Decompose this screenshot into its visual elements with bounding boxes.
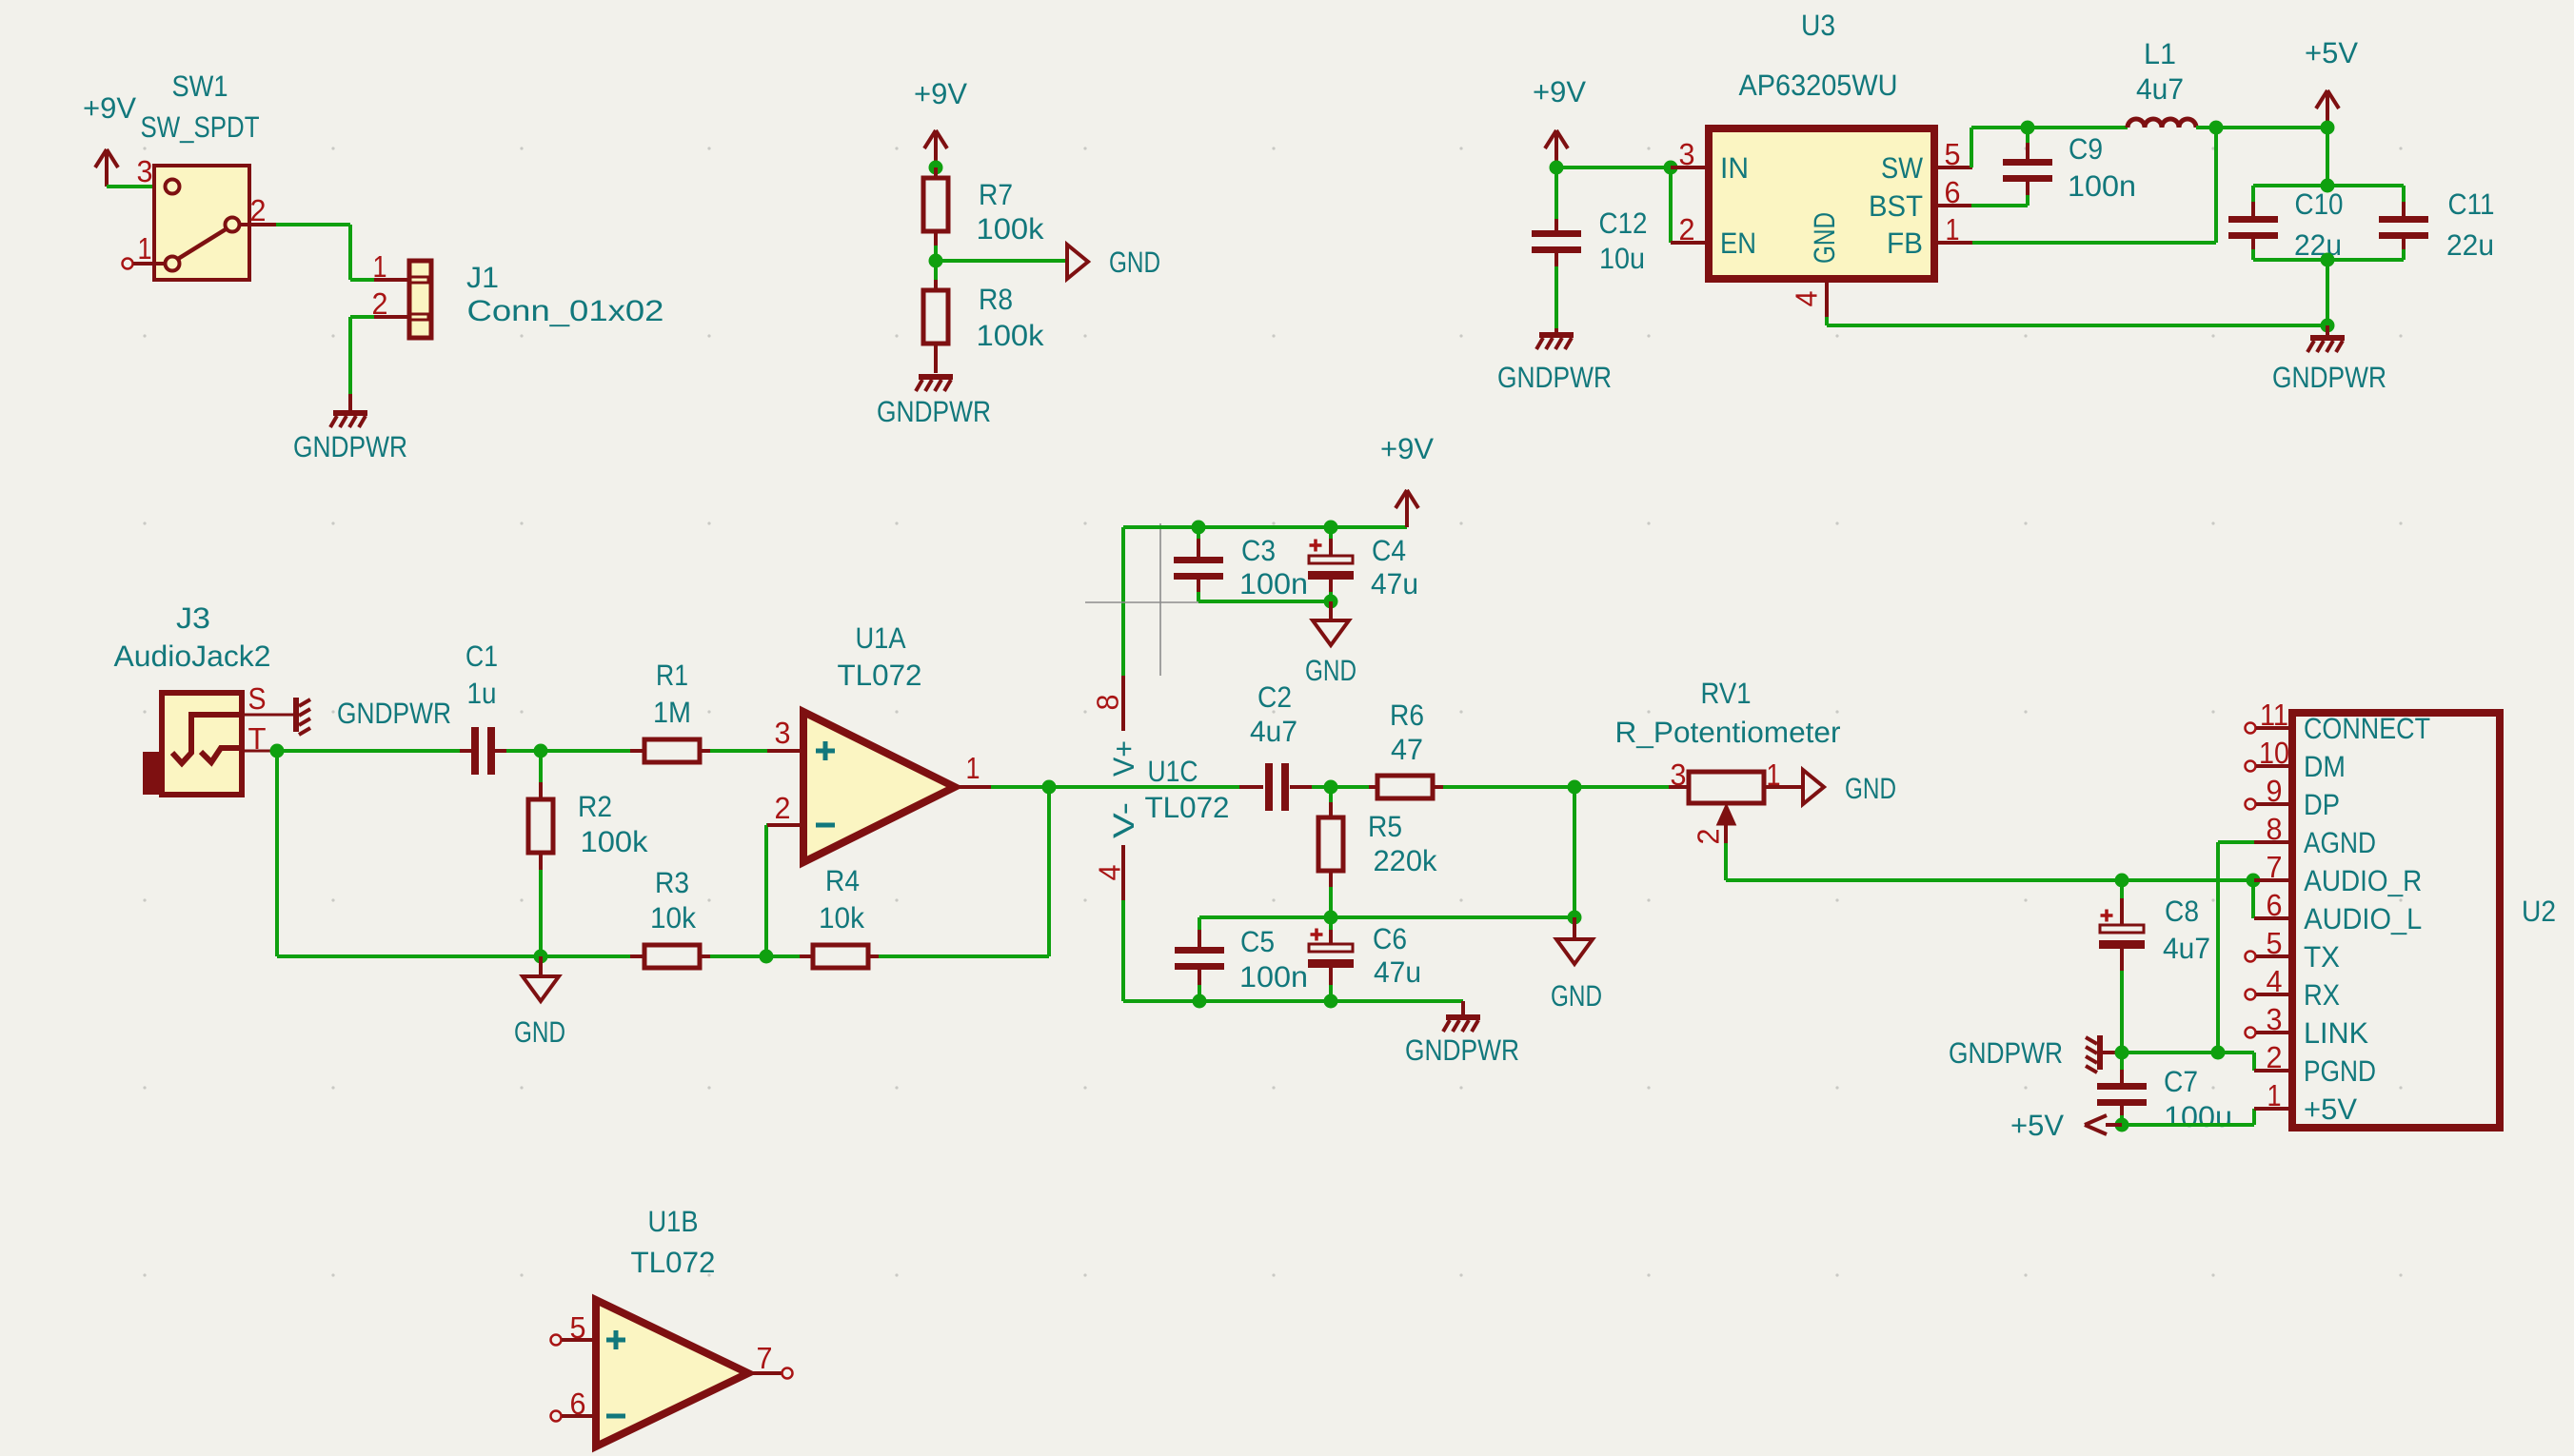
- svg-text:1: 1: [373, 249, 387, 284]
- ground GNDPWR (U2): [2103, 1051, 2122, 1054]
- ground GND (input bias): [539, 956, 543, 976]
- U2 pin 6 AUDIO_L: [2254, 916, 2292, 920]
- capacitor C6 47u (polarized): [1329, 917, 1333, 930]
- resistor R1 1M: [541, 749, 630, 753]
- wire U3 GND to GNDPWR rail: [1825, 317, 1829, 325]
- svg-text:PGND: PGND: [2304, 1054, 2376, 1088]
- svg-text:2: 2: [1692, 829, 1726, 845]
- svg-text:GND: GND: [514, 1015, 565, 1049]
- node +5V junction: [2115, 1118, 2129, 1132]
- svg-text:6: 6: [570, 1387, 586, 1421]
- wire J1 pin2 to GNDPWR: [350, 315, 374, 319]
- wire J3 down the left side: [275, 751, 279, 956]
- capacitor C3 100n: [1197, 527, 1200, 539]
- svg-text:GND: GND: [1845, 772, 1896, 805]
- svg-text:4: 4: [1093, 865, 1127, 881]
- svg-text:5: 5: [1945, 137, 1961, 171]
- cursor crosshair artifact: [1159, 523, 1161, 676]
- svg-text:47u: 47u: [1371, 567, 1418, 600]
- svg-text:100u: 100u: [2164, 1100, 2232, 1133]
- wire C3/C4 bottom: [1198, 600, 1331, 603]
- U2 pin 10 DM: [2246, 761, 2256, 772]
- wire feedback up to output: [1047, 787, 1051, 956]
- node C6 bottom junction: [1324, 994, 1338, 1009]
- svg-text:1u: 1u: [467, 677, 497, 710]
- wire +9V to SW1 pin3: [107, 185, 164, 188]
- wire AGND vertical: [2216, 842, 2220, 1053]
- svg-text:6: 6: [2267, 888, 2283, 922]
- svg-text:C6: C6: [1373, 922, 1407, 955]
- svg-text:C9: C9: [2069, 132, 2103, 166]
- wire tip to C1: [277, 749, 460, 753]
- svg-text:5: 5: [2267, 926, 2283, 960]
- svg-text:GNDPWR: GNDPWR: [1497, 361, 1612, 394]
- node C1/R2 junction: [534, 744, 548, 758]
- svg-text:22u: 22u: [2446, 228, 2494, 262]
- svg-text:8: 8: [1091, 695, 1125, 711]
- node C3 junction: [1192, 521, 1206, 535]
- svg-text:6: 6: [1945, 175, 1961, 209]
- svg-text:4u7: 4u7: [1250, 715, 1297, 748]
- wire down to GND: [1573, 787, 1576, 917]
- svg-text:AudioJack2: AudioJack2: [114, 639, 271, 673]
- wire SW1 pin2 to J1 pin1: [276, 223, 350, 226]
- wire +9V to U3 IN: [1556, 166, 1671, 169]
- U1B pin 5 (+): [551, 1335, 562, 1346]
- svg-text:DM: DM: [2304, 750, 2346, 783]
- svg-text:R5: R5: [1368, 810, 1402, 843]
- ground GND (audio): [1573, 917, 1576, 939]
- node IN/EN junction: [1664, 161, 1678, 175]
- wire GNDPWR bottom rail: [1123, 999, 1463, 1003]
- svg-text:GND: GND: [1808, 212, 1841, 264]
- U1A pin 3 (+): [767, 749, 803, 753]
- svg-text:2: 2: [775, 791, 791, 825]
- svg-text:7: 7: [2267, 850, 2283, 884]
- svg-text:R7: R7: [979, 178, 1013, 211]
- svg-text:R1: R1: [656, 659, 688, 692]
- svg-text:C11: C11: [2448, 187, 2495, 221]
- U1B pin 7 out: [748, 1371, 782, 1375]
- svg-text:100k: 100k: [581, 825, 649, 858]
- svg-text:RX: RX: [2304, 978, 2340, 1012]
- svg-text:RV1: RV1: [1701, 677, 1752, 710]
- svg-text:1: 1: [1767, 758, 1781, 792]
- RV1 pin 2 wiper: [1718, 806, 1734, 824]
- svg-text:4: 4: [1790, 291, 1824, 307]
- svg-text:C5: C5: [1240, 925, 1275, 958]
- svg-text:220k: 220k: [1374, 844, 1437, 877]
- svg-text:100n: 100n: [1239, 960, 1308, 994]
- svg-text:1: 1: [966, 751, 980, 785]
- svg-text:3: 3: [775, 716, 791, 750]
- U2 pin 3 LINK: [2246, 1028, 2256, 1038]
- resistor R5 220k: [1329, 787, 1333, 802]
- svg-text:2: 2: [372, 286, 388, 321]
- svg-text:10u: 10u: [1599, 242, 1645, 275]
- resistor R2 100k: [539, 751, 543, 782]
- svg-text:R8: R8: [979, 283, 1013, 316]
- node C4 bottom junction: [1324, 595, 1338, 609]
- U2 pin 1 +5V: [2254, 1107, 2292, 1111]
- svg-text:GNDPWR: GNDPWR: [2272, 361, 2386, 394]
- svg-text:2: 2: [250, 193, 267, 227]
- node GND junction: [1568, 911, 1582, 925]
- node C10/C11 top rail junction: [2321, 179, 2335, 193]
- svg-text:2: 2: [2267, 1040, 2283, 1074]
- wire AUDIO_L link: [2251, 880, 2255, 918]
- svg-text:5: 5: [570, 1310, 586, 1345]
- U1A pin 1 out: [955, 785, 991, 789]
- power flag GND (divider): [1067, 245, 1088, 279]
- wire down to GNDPWR rail: [2326, 260, 2329, 325]
- svg-text:11: 11: [2260, 698, 2288, 732]
- node bottom rail junction: [2321, 253, 2335, 267]
- svg-text:R_Potentiometer: R_Potentiometer: [1615, 716, 1841, 749]
- svg-text:+5V: +5V: [2010, 1109, 2064, 1142]
- svg-text:3: 3: [1671, 758, 1687, 792]
- svg-text:V+: V+: [1107, 740, 1140, 777]
- svg-text:U3: U3: [1801, 9, 1835, 42]
- node GNDPWR junction: [2115, 1046, 2129, 1060]
- node R6/pot junction: [1568, 780, 1582, 795]
- U2 pin 11 CONNECT: [2246, 723, 2256, 734]
- resistor R3 10k: [630, 954, 644, 958]
- svg-text:AUDIO_L: AUDIO_L: [2304, 902, 2422, 935]
- wire +5V rail: [2122, 1123, 2254, 1127]
- svg-text:U1C: U1C: [1148, 755, 1198, 788]
- node J3 tip junction: [270, 744, 285, 758]
- svg-text:+9V: +9V: [1533, 75, 1586, 108]
- svg-text:1: 1: [1946, 212, 1960, 246]
- ground GNDPWR (C10/C11): [2326, 325, 2329, 335]
- svg-text:GNDPWR: GNDPWR: [877, 395, 991, 428]
- svg-text:4u7: 4u7: [2136, 72, 2184, 106]
- svg-text:C1: C1: [465, 639, 498, 673]
- node R3/R4 junction: [760, 950, 774, 964]
- svg-text:3: 3: [1679, 137, 1695, 171]
- wire +5V down to C10/C11 rail: [2326, 128, 2329, 186]
- svg-text:C12: C12: [1599, 207, 1648, 240]
- svg-text:C7: C7: [2164, 1065, 2198, 1098]
- node C9 top junction: [2021, 121, 2035, 135]
- power flag +5V (U2): [2106, 1123, 2122, 1127]
- svg-text:100k: 100k: [977, 212, 1045, 246]
- svg-text:SW1: SW1: [172, 69, 228, 103]
- svg-text:R6: R6: [1390, 698, 1424, 732]
- svg-text:U1B: U1B: [648, 1205, 699, 1238]
- svg-text:TL072: TL072: [1145, 791, 1230, 824]
- wire +9V top rail: [1123, 525, 1407, 529]
- wire wiper to U2 audio: [1724, 843, 1728, 880]
- svg-text:EN: EN: [1720, 226, 1756, 260]
- svg-text:+9V: +9V: [914, 77, 967, 110]
- svg-text:C10: C10: [2295, 187, 2344, 221]
- U2 pin 4 RX: [2246, 990, 2256, 1000]
- svg-text:AP63205WU: AP63205WU: [1739, 69, 1898, 102]
- svg-text:+9V: +9V: [83, 91, 136, 125]
- wire C10/C11 bottom rail: [2253, 258, 2404, 262]
- node C5 bottom junction: [1193, 994, 1207, 1009]
- svg-text:AGND: AGND: [2304, 826, 2376, 859]
- node output junction: [1042, 780, 1057, 795]
- svg-text:1: 1: [138, 231, 152, 266]
- svg-text:FB: FB: [1887, 226, 1923, 260]
- ground GND (C3/C4): [1329, 601, 1333, 620]
- svg-text:J3: J3: [176, 601, 210, 635]
- svg-text:DP: DP: [2304, 788, 2340, 821]
- svg-text:47: 47: [1391, 733, 1423, 766]
- resistor R6 47: [1331, 785, 1369, 789]
- node +9V/C12 junction: [1550, 161, 1564, 175]
- svg-text:R3: R3: [655, 866, 689, 899]
- U2 pin 8 AGND: [2254, 840, 2292, 844]
- J1 pin 2: [374, 315, 409, 319]
- capacitor C5 100n: [1198, 917, 1201, 930]
- svg-text:GNDPWR: GNDPWR: [1405, 1033, 1519, 1067]
- svg-text:C2: C2: [1257, 680, 1292, 714]
- node +5V junction: [2321, 121, 2335, 135]
- wire GNDPWR rail to PGND: [2122, 1051, 2254, 1054]
- U3 pin 5 SW: [1934, 166, 1972, 169]
- svg-text:CONNECT: CONNECT: [2304, 712, 2430, 745]
- svg-text:S: S: [248, 681, 267, 716]
- U3 pin 2 EN: [1671, 241, 1709, 245]
- svg-text:+9V: +9V: [1380, 432, 1434, 465]
- wire junction to EN: [1669, 167, 1673, 243]
- svg-text:GNDPWR: GNDPWR: [337, 697, 451, 730]
- svg-text:Conn_01x02: Conn_01x02: [467, 294, 664, 327]
- wire C5/C6 top rail: [1199, 915, 1574, 919]
- svg-text:GND: GND: [1551, 979, 1602, 1013]
- svg-text:1M: 1M: [653, 696, 691, 729]
- svg-text:+5V: +5V: [2304, 1092, 2357, 1126]
- svg-text:2: 2: [1679, 212, 1695, 246]
- svg-text:R2: R2: [578, 790, 612, 823]
- node C4 junction: [1324, 521, 1338, 535]
- node L1/FB junction: [2209, 121, 2224, 135]
- RV1 pin 1: [1764, 785, 1801, 789]
- node divider mid junction: [929, 254, 943, 268]
- svg-text:GNDPWR: GNDPWR: [293, 430, 407, 463]
- svg-text:9: 9: [2267, 774, 2283, 808]
- wire divider mid to GND flag: [936, 259, 1066, 263]
- svg-text:SW_SPDT: SW_SPDT: [141, 110, 260, 144]
- svg-text:U2: U2: [2522, 895, 2556, 928]
- resistor R4 10k: [766, 954, 800, 958]
- wire inverting input: [764, 825, 768, 956]
- capacitor C4 47u (polarized): [1329, 527, 1333, 539]
- svg-text:SW: SW: [1881, 151, 1924, 185]
- svg-text:TL072: TL072: [631, 1246, 716, 1279]
- U3 pin 3 IN: [1671, 166, 1709, 169]
- capacitor C2 4u7: [1239, 785, 1263, 789]
- svg-text:C3: C3: [1241, 534, 1276, 567]
- svg-text:GND: GND: [1109, 246, 1160, 279]
- svg-text:BST: BST: [1869, 189, 1923, 223]
- svg-text:3: 3: [137, 154, 153, 188]
- svg-text:LINK: LINK: [2304, 1016, 2368, 1050]
- svg-text:4: 4: [2267, 964, 2283, 998]
- wire R6 out to RV1: [1574, 785, 1669, 789]
- svg-text:C4: C4: [1372, 534, 1406, 567]
- svg-text:V-: V-: [1107, 802, 1140, 838]
- svg-text:10k: 10k: [650, 901, 696, 935]
- capacitor C7 100u: [2120, 1053, 2124, 1070]
- svg-text:4u7: 4u7: [2163, 932, 2210, 965]
- svg-text:3: 3: [2267, 1002, 2283, 1036]
- U3 pin 1 FB: [1934, 241, 1972, 245]
- capacitor C12 10u: [1554, 167, 1558, 219]
- capacitor C11 22u: [2402, 186, 2406, 202]
- node AGND junction: [2211, 1046, 2226, 1060]
- U1C pin 8 V+: [1121, 527, 1125, 676]
- capacitor C1 1u: [460, 749, 471, 753]
- svg-text:+5V: +5V: [2305, 36, 2358, 69]
- U1B pin 6 (-): [551, 1411, 562, 1422]
- node R2/GND junction: [534, 950, 548, 964]
- capacitor C9 100n: [2026, 128, 2029, 143]
- svg-text:AUDIO_R: AUDIO_R: [2304, 864, 2422, 897]
- U2 pin 5 TX: [2246, 952, 2256, 962]
- svg-text:GNDPWR: GNDPWR: [1949, 1036, 2063, 1070]
- svg-text:C8: C8: [2165, 895, 2199, 928]
- U2 pin 9 DP: [2246, 799, 2256, 810]
- node R5/C6 junction: [1324, 911, 1338, 925]
- U2 pin 7 AUDIO_R: [2254, 878, 2292, 882]
- wire SW to C9 top: [1970, 128, 1973, 167]
- J1 pin 1: [374, 278, 409, 282]
- capacitor C8 4u7 (polarized): [2120, 880, 2124, 898]
- svg-text:R4: R4: [825, 864, 860, 897]
- svg-text:TL072: TL072: [838, 659, 922, 692]
- ground GNDPWR (J3 sleeve): [293, 698, 299, 732]
- capacitor C10 22u: [2251, 186, 2255, 202]
- svg-text:7: 7: [757, 1341, 773, 1375]
- U2 pin 2 PGND: [2254, 1069, 2292, 1072]
- ground GNDPWR (J1): [348, 394, 352, 410]
- ground GNDPWR (C12): [1554, 328, 1558, 332]
- node GNDPWR rail junction: [2321, 319, 2335, 333]
- ground GNDPWR (C5/C6): [1461, 1001, 1465, 1014]
- wire FB feedback: [1972, 241, 2216, 245]
- svg-text:8: 8: [2267, 812, 2283, 846]
- node C2/R5/R6 junction: [1324, 780, 1338, 795]
- svg-text:100k: 100k: [977, 319, 1045, 352]
- svg-text:100n: 100n: [1239, 567, 1308, 600]
- ground GNDPWR (R8): [919, 374, 953, 380]
- U3 pin 4 GND: [1825, 279, 1829, 317]
- svg-text:GND: GND: [1305, 654, 1356, 687]
- node AUDIO_R junction: [2247, 874, 2261, 888]
- U3 pin 6 BST: [1934, 204, 1972, 207]
- svg-text:L1: L1: [2144, 37, 2176, 70]
- wire U1A out: [991, 785, 1239, 789]
- svg-text:47u: 47u: [1374, 955, 1421, 989]
- svg-text:10: 10: [2259, 736, 2289, 770]
- svg-text:1: 1: [2267, 1078, 2282, 1112]
- resistor R8 100k: [934, 261, 938, 280]
- svg-text:IN: IN: [1720, 151, 1749, 185]
- node +9V/R7 junction: [929, 161, 943, 175]
- svg-text:U1A: U1A: [856, 621, 906, 655]
- svg-text:100n: 100n: [2068, 169, 2136, 203]
- svg-text:22u: 22u: [2294, 228, 2342, 262]
- U1A pin 2 (-): [767, 823, 803, 827]
- resistor R7 100k: [934, 167, 938, 178]
- svg-text:TX: TX: [2304, 940, 2340, 974]
- svg-text:J1: J1: [466, 261, 499, 294]
- RV1 pin 3: [1669, 785, 1689, 789]
- svg-text:10k: 10k: [819, 901, 864, 935]
- node C8 junction: [2115, 874, 2129, 888]
- power flag GND (RV1): [1803, 770, 1824, 804]
